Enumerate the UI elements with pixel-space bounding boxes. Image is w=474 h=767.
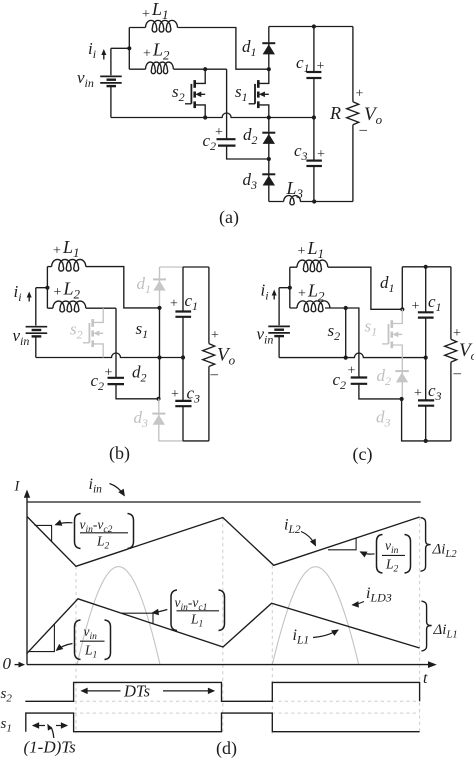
- waveform s1 gate: [26, 713, 420, 732]
- resistor R load branch: [347, 27, 359, 202]
- diode d1: [262, 27, 275, 70]
- capacitor c1: [306, 27, 321, 118]
- brace delta iL2: [421, 518, 431, 572]
- svg-text:+: +: [348, 364, 356, 379]
- wire battery tap: [111, 48, 129, 75]
- node c1 top: [312, 24, 316, 28]
- svg-text:+: +: [143, 47, 151, 62]
- inductor L1: [297, 260, 328, 272]
- svg-text:(b): (b): [109, 443, 130, 464]
- inductor L1: [146, 20, 178, 32]
- svg-text:(d): (d): [216, 738, 237, 759]
- node c1/c3 on rail: [424, 356, 428, 360]
- wire middle rail with hop over c2 branch: [111, 113, 314, 118]
- battery v_in: [268, 326, 290, 336]
- capacitor c2 branch from L2 node: [108, 308, 159, 399]
- current arrow i_i: [103, 53, 105, 60]
- slope box (vin-vc1)/L1: [153, 590, 225, 631]
- grid dashed vertical t2: [222, 518, 224, 734]
- arrow i_L2 pointer: [301, 532, 316, 546]
- wire L2 row: [47, 307, 116, 309]
- curve i_in top line: [27, 501, 421, 503]
- svg-text:+: +: [211, 328, 219, 343]
- arrow i_in pointer: [110, 484, 125, 496]
- arrow i_LD3 pointer: [353, 602, 365, 605]
- current arrow i_i: [28, 295, 30, 302]
- wire L1 top row: [129, 28, 268, 70]
- wire left vertical L1-L2 leg: [46, 267, 48, 309]
- slope triangle vin/L2: [328, 538, 356, 549]
- slope triangle vin/L1: [29, 624, 55, 651]
- wire middle rail with hop over c2 branch: [279, 353, 426, 358]
- switch d2 closed wire: [159, 358, 161, 399]
- svg-text:DTs: DTs: [123, 682, 150, 701]
- wire L1 top row: [290, 267, 403, 309]
- grid dashed s1 high level: [74, 712, 420, 714]
- node s2 source on rail: [203, 115, 207, 119]
- curve i_L2: [27, 517, 420, 567]
- axis I vertical: [26, 497, 28, 665]
- svg-text:+: +: [453, 326, 461, 341]
- wire bottom output row: [269, 201, 353, 203]
- switch d1 closed wire: [401, 267, 403, 310]
- svg-text:+: +: [298, 287, 306, 302]
- wire grey top rail segment: [160, 266, 183, 268]
- capacitor c2: [217, 69, 269, 159]
- arrow (1-D)Ts span right: [56, 725, 67, 727]
- svg-text:+: +: [356, 87, 364, 102]
- current arrow i_i: [273, 293, 275, 300]
- svg-text:+: +: [215, 125, 223, 140]
- inductor L3: [284, 196, 301, 205]
- capacitor c3: [175, 358, 191, 441]
- diode d3 (off, grey): [152, 399, 183, 441]
- svg-text:+: +: [170, 297, 178, 312]
- node d1/s1/L1: [400, 307, 404, 311]
- arrow (1-D)Ts span left: [33, 725, 45, 727]
- transistor s2 (off, grey): [83, 308, 103, 357]
- switch d3 conducting wire: [402, 399, 426, 441]
- svg-text:+: +: [53, 244, 61, 259]
- svg-text:+: +: [54, 285, 62, 300]
- svg-text:+: +: [414, 386, 422, 401]
- wire L2 row: [129, 68, 226, 70]
- svg-text:t: t: [423, 670, 428, 687]
- svg-text:+: +: [142, 7, 150, 22]
- grid dashed vertical t3: [271, 565, 273, 733]
- axis t horizontal: [27, 664, 429, 666]
- brace delta iL1: [422, 601, 432, 651]
- node c3 bottom: [424, 439, 428, 443]
- slope box vin/L1: [57, 620, 111, 661]
- svg-text:(1-D)Ts: (1-D)Ts: [24, 738, 77, 757]
- diode d1 (off, grey): [153, 267, 166, 306]
- arrow DTs span: [82, 690, 121, 692]
- capacitor c3: [306, 118, 322, 202]
- wire left vertical L1-L2 leg: [128, 28, 130, 70]
- node d1/s1/L1: [157, 306, 161, 310]
- wire battery tap: [36, 288, 48, 326]
- battery v_in: [26, 327, 48, 337]
- diode d3: [262, 159, 275, 202]
- svg-text:+: +: [317, 147, 325, 162]
- inductor L2: [53, 301, 86, 312]
- svg-text:+: +: [105, 366, 113, 381]
- transistor s1 (off, grey): [382, 309, 402, 357]
- grid dashed vertical t4: [419, 517, 421, 734]
- wire L1 top row: [47, 267, 159, 308]
- wire L2 row: [290, 307, 346, 309]
- svg-text:+: +: [171, 387, 179, 402]
- node c2/d2/d3: [156, 397, 160, 401]
- svg-text:–: –: [359, 122, 368, 138]
- wire battery negative to rail: [110, 87, 112, 118]
- transistor Q s2: [185, 69, 205, 117]
- wire black top rail: [402, 266, 451, 268]
- wire bottom to load: [426, 440, 451, 442]
- node L1-L2 split: [45, 286, 49, 290]
- node c2/d2/d3: [400, 397, 404, 401]
- diode d2 (off, grey) through rail: [395, 358, 409, 399]
- curve iLD3 hump 2: [272, 567, 358, 665]
- svg-text:–: –: [210, 367, 219, 383]
- capacitor c1: [418, 267, 434, 358]
- node s2 drain: [344, 306, 348, 310]
- wire top rail: [269, 26, 353, 28]
- node s1 drain: [267, 67, 271, 71]
- transistor Q s1: [249, 69, 269, 117]
- switch s2 closed wire: [345, 308, 347, 358]
- wire bottom to load: [183, 440, 209, 442]
- resistor load Vo branch: [445, 267, 457, 441]
- slope triangle vin-vc2/L2: [35, 525, 51, 542]
- arrow i_L1 pointer: [313, 630, 338, 638]
- node c1 bottom on rail: [312, 115, 316, 119]
- waveform s2 gate: [25, 682, 419, 701]
- wire battery tap: [279, 288, 290, 326]
- node c1/c3 on rail: [181, 355, 185, 359]
- svg-text:(c): (c): [353, 444, 373, 465]
- inductor L2: [146, 62, 174, 74]
- node c3 bottom: [312, 199, 316, 203]
- svg-text:+: +: [298, 244, 306, 259]
- curve iLD3 hump 1: [77, 567, 160, 665]
- node c1 top: [424, 265, 428, 269]
- battery v_in: [100, 76, 122, 86]
- svg-text:+: +: [317, 59, 325, 74]
- node s2 drain: [203, 67, 207, 71]
- svg-text:–: –: [453, 366, 462, 382]
- arrow (1-D)Ts hook: [51, 727, 54, 738]
- svg-text:+: +: [412, 299, 420, 314]
- wire battery negative to rail: [278, 337, 280, 358]
- node d2-d3-c2: [267, 157, 271, 161]
- switch s1 closed wire: [159, 308, 161, 358]
- node s1 source on rail: [267, 115, 271, 119]
- wire middle rail with hop over c2 branch: [36, 353, 183, 358]
- slope triangle vin-vc1/L1: [121, 613, 153, 623]
- svg-text:(a): (a): [219, 207, 239, 228]
- node s1 on rail: [157, 355, 161, 359]
- wire battery negative to rail: [35, 337, 37, 357]
- grid dashed vertical t1: [75, 566, 77, 733]
- svg-text:R: R: [329, 103, 341, 123]
- wire left vertical L1-L2 leg: [289, 267, 291, 308]
- capacitor c2 branch: [346, 308, 402, 399]
- diode d2: [262, 118, 275, 160]
- inductor L2: [297, 301, 330, 312]
- wire black top rail to load: [183, 266, 209, 268]
- slope box (vin-vc2)/L2: [56, 514, 134, 552]
- inductor L1: [52, 259, 86, 271]
- capacitor c3: [418, 358, 434, 441]
- curve i_L1: [27, 599, 420, 654]
- capacitor c1: [175, 267, 191, 358]
- slope box vin/L2: [361, 535, 411, 575]
- node L1-L2 split: [288, 286, 292, 290]
- node L1-L2 split: [127, 46, 131, 50]
- svg-text:0: 0: [3, 654, 12, 673]
- resistor load Vo branch: [203, 267, 215, 441]
- grid dashed s2 low level: [74, 700, 420, 702]
- node s2 on rail: [344, 356, 348, 360]
